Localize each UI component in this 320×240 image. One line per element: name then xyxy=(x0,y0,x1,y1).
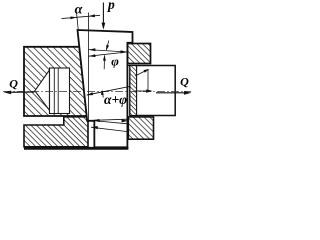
svg-text:Q: Q xyxy=(180,75,189,89)
svg-text:α+φ: α+φ xyxy=(104,92,127,107)
svg-text:Q: Q xyxy=(9,76,18,90)
svg-text:α: α xyxy=(75,2,83,17)
svg-text:φ: φ xyxy=(111,54,119,69)
svg-text:p: p xyxy=(107,0,115,12)
